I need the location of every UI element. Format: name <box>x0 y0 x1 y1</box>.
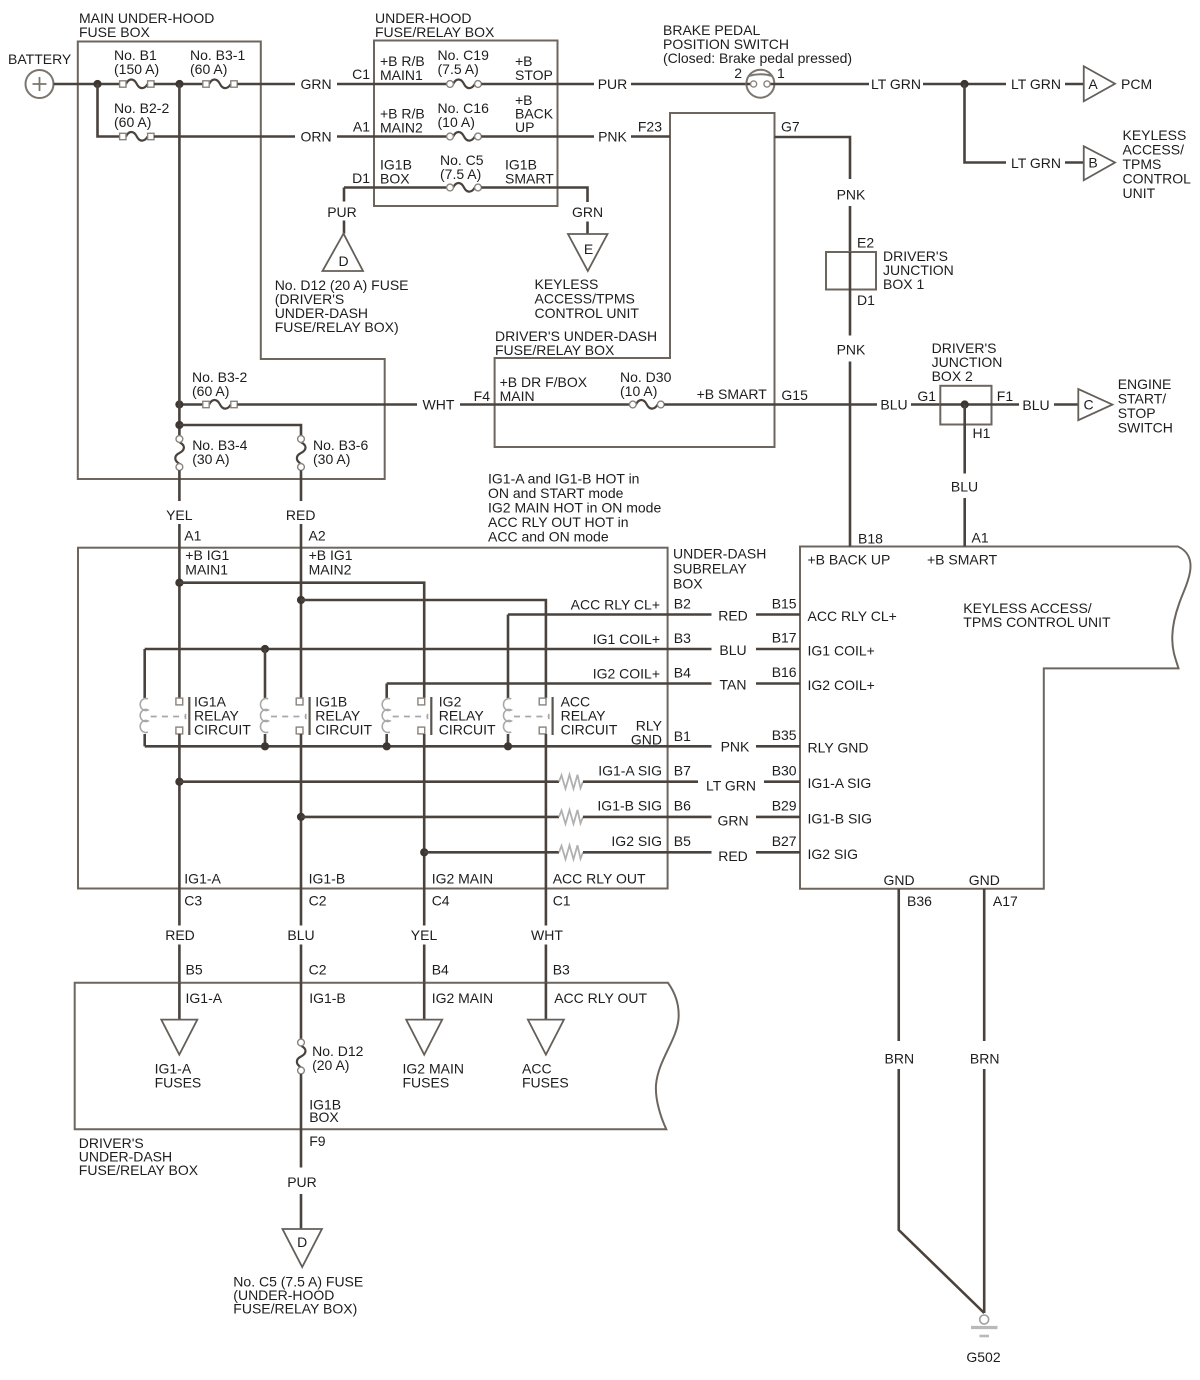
svg-text:RED: RED <box>286 507 316 523</box>
wire BLU to junction box 2 <box>775 388 941 413</box>
svg-text:CIRCUIT: CIRCUIT <box>561 722 618 738</box>
fuse No. B3-2 (60 A) <box>192 369 247 409</box>
svg-text:(60 A): (60 A) <box>190 61 227 77</box>
svg-text:MAIN1: MAIN1 <box>185 562 228 578</box>
wire battery branch down to B2-2 <box>98 84 120 137</box>
svg-text:F1: F1 <box>997 388 1014 404</box>
relay IG1A circuit <box>140 694 251 738</box>
wire A1 +B IG1 MAIN1 into subrelay <box>175 547 229 698</box>
wire B2 to B15 ACC RLY CL+ <box>668 595 897 624</box>
hot-mode note text <box>488 471 661 545</box>
svg-text:MAIN1: MAIN1 <box>380 67 423 83</box>
svg-text:FUSE/RELAY BOX: FUSE/RELAY BOX <box>79 1162 199 1178</box>
svg-text:(60 A): (60 A) <box>192 383 229 399</box>
svg-text:PUR: PUR <box>598 76 628 92</box>
svg-text:B3: B3 <box>674 630 691 646</box>
svg-text:IG1-B SIG: IG1-B SIG <box>808 811 873 827</box>
wire A1 branch to IG2 relay contact <box>179 583 424 698</box>
svg-text:A1: A1 <box>353 119 370 135</box>
connector D triangle (fuse D12) <box>275 234 409 335</box>
wire LT GRN switch to junction <box>774 76 1083 92</box>
svg-text:B2: B2 <box>674 596 691 612</box>
wire IG1-A SIG row B7 with resistor <box>179 762 691 788</box>
wire +B R/B MAIN2 row inside under-hood box <box>374 106 447 137</box>
svg-text:C: C <box>1083 397 1093 413</box>
svg-text:B4: B4 <box>432 962 449 978</box>
wire +B STOP out to brake switch <box>481 53 746 92</box>
svg-text:1: 1 <box>777 65 785 81</box>
svg-text:UNDER-DASH: UNDER-DASH <box>673 546 766 562</box>
wire RED label segment <box>286 470 326 547</box>
svg-text:+B BACK UP: +B BACK UP <box>808 552 891 568</box>
svg-text:(7.5 A): (7.5 A) <box>438 61 479 77</box>
wire +B R/B MAIN1 row inside under-hood box <box>374 53 447 84</box>
svg-text:PUR: PUR <box>287 1174 317 1190</box>
svg-text:+B SMART: +B SMART <box>697 386 768 402</box>
fuse No. B3-1 (60 A) <box>190 47 245 88</box>
svg-text:GND: GND <box>969 872 1000 888</box>
wire +B SMART to G15 <box>664 386 808 405</box>
wire YEL main box to subrelay A1 <box>175 84 183 436</box>
svg-text:IG2 SIG: IG2 SIG <box>808 846 859 862</box>
svg-text:F23: F23 <box>638 119 662 135</box>
svg-text:ACC RLY OUT: ACC RLY OUT <box>554 990 647 1006</box>
connector B triangle to keyless unit <box>1084 127 1191 201</box>
svg-text:B7: B7 <box>674 762 691 778</box>
relay ACC circuit <box>504 694 618 738</box>
wire IG1B BOX down to F9 <box>287 1074 341 1229</box>
svg-text:UP: UP <box>515 119 534 135</box>
wire ORN to under-hood box <box>154 119 374 145</box>
fuse No. D12 (20 A) <box>297 1039 364 1074</box>
svg-text:YEL: YEL <box>411 927 438 943</box>
svg-text:RED: RED <box>718 848 748 864</box>
wire B7 to B30 IG1-A SIG <box>668 762 872 793</box>
svg-text:D: D <box>338 253 348 269</box>
svg-text:BOX: BOX <box>673 576 703 592</box>
svg-text:MAIN2: MAIN2 <box>380 120 423 136</box>
wire +B BACK UP / PNK to F23 <box>481 92 670 145</box>
under-hood fuse/relay box <box>374 10 558 206</box>
svg-text:IG1 COIL+: IG1 COIL+ <box>808 643 875 659</box>
wire RLY GND row B1 <box>145 718 691 751</box>
svg-text:IG2 COIL+: IG2 COIL+ <box>808 677 875 693</box>
svg-text:G7: G7 <box>781 119 800 135</box>
svg-text:YEL: YEL <box>166 507 193 523</box>
svg-text:B29: B29 <box>772 798 797 814</box>
node LT GRN junction <box>960 80 968 88</box>
wire IG1-B contact down <box>300 734 303 889</box>
svg-text:SMART: SMART <box>505 171 554 187</box>
connector A triangle to PCM <box>1084 66 1152 101</box>
node IG2 sig junction <box>420 848 428 856</box>
svg-text:C3: C3 <box>184 893 202 909</box>
driver's junction box 1 (E2/D1) <box>826 235 954 309</box>
svg-text:BOX 2: BOX 2 <box>932 368 973 384</box>
svg-text:FUSE/RELAY BOX: FUSE/RELAY BOX <box>375 24 495 40</box>
svg-text:BLU: BLU <box>1022 397 1049 413</box>
svg-text:LT GRN: LT GRN <box>1011 76 1061 92</box>
fuse No. B3-6 (30 A) <box>297 436 369 471</box>
wire BRN from B36 <box>885 889 985 1313</box>
svg-text:B36: B36 <box>907 893 932 909</box>
main under-hood fuse box <box>78 10 385 479</box>
svg-text:2: 2 <box>734 65 742 81</box>
svg-text:(10 A): (10 A) <box>620 383 657 399</box>
wire YEL C4 to lower box <box>411 889 449 983</box>
svg-text:B: B <box>1088 155 1097 171</box>
svg-text:CIRCUIT: CIRCUIT <box>194 722 251 738</box>
svg-text:D1: D1 <box>352 170 370 186</box>
svg-text:(Closed: Brake pedal pressed): (Closed: Brake pedal pressed) <box>663 50 852 66</box>
wire B3-2 row (WHT) <box>175 400 202 408</box>
svg-text:BATTERY: BATTERY <box>8 51 72 67</box>
svg-text:MAIN2: MAIN2 <box>309 562 352 578</box>
svg-text:B4: B4 <box>674 665 691 681</box>
svg-text:PNK: PNK <box>837 342 866 358</box>
svg-text:B5: B5 <box>674 833 691 849</box>
svg-text:RED: RED <box>718 608 748 624</box>
keyless box GND pins <box>883 872 1018 909</box>
svg-text:ACC RLY OUT: ACC RLY OUT <box>553 870 646 886</box>
svg-text:PUR: PUR <box>327 204 357 220</box>
svg-text:SUBRELAY: SUBRELAY <box>673 561 747 577</box>
fuse No. B2-2 (60 A) <box>114 100 169 141</box>
svg-text:IG1 COIL+: IG1 COIL+ <box>593 631 660 647</box>
wire H1 BLU down to keyless A1 <box>951 405 991 547</box>
svg-text:B1: B1 <box>674 728 691 744</box>
wire to IG2 MAIN fuses triangle <box>423 983 426 1020</box>
svg-text:ACC and ON mode: ACC and ON mode <box>488 529 609 545</box>
svg-text:E2: E2 <box>857 235 874 251</box>
wire BLU to connector C <box>992 397 1079 413</box>
svg-text:RED: RED <box>165 927 195 943</box>
wire battery to fuse B1 <box>54 83 120 86</box>
svg-text:BOX: BOX <box>309 1109 339 1125</box>
brake pedal position switch <box>663 22 852 98</box>
svg-text:(20 A): (20 A) <box>312 1057 349 1073</box>
svg-text:C2: C2 <box>309 962 327 978</box>
svg-text:MAIN: MAIN <box>500 388 535 404</box>
wire PUR down to connector D <box>327 188 357 234</box>
connector E triangle <box>535 234 640 321</box>
svg-text:IG1-B: IG1-B <box>309 870 346 886</box>
wire B1 to B35 RLY GND <box>668 727 869 756</box>
svg-text:F4: F4 <box>474 388 491 404</box>
driver's junction box 2 (G1/F1/H1) <box>932 340 1014 425</box>
svg-text:BRN: BRN <box>970 1051 1000 1067</box>
fuse No. C16 (10 A) <box>438 100 490 141</box>
wire to ACC fuses triangle <box>545 983 548 1020</box>
svg-text:(10 A): (10 A) <box>438 114 475 130</box>
svg-text:A2: A2 <box>309 528 326 544</box>
wire WHT C1 to lower box <box>531 889 570 983</box>
wire A2 branch to ACC relay contact <box>301 600 546 698</box>
svg-text:IG1-B SIG: IG1-B SIG <box>597 798 662 814</box>
wire ACC contact down <box>545 734 548 889</box>
under-dash subrelay box <box>78 546 766 889</box>
svg-text:BOX: BOX <box>380 171 410 187</box>
wire IG1 COIL+ row B3 <box>145 630 691 698</box>
wire branch to B3-6 <box>179 425 301 436</box>
node B1/B3-1 junction <box>175 80 183 88</box>
wire IG1B BOX row inside under-hood box <box>344 157 447 188</box>
svg-text:C4: C4 <box>432 893 450 909</box>
wire IG1B SMART out of box <box>481 157 587 203</box>
node IG1-A sig junction <box>175 778 183 786</box>
svg-text:FUSE/RELAY BOX): FUSE/RELAY BOX) <box>233 1301 357 1317</box>
svg-text:B5: B5 <box>186 962 203 978</box>
svg-text:(30 A): (30 A) <box>313 451 350 467</box>
svg-text:BRN: BRN <box>885 1051 915 1067</box>
subrelay bottom pin labels <box>184 870 646 908</box>
wire BRN from A17 <box>970 889 1000 1313</box>
wire to fuse D12 <box>300 982 303 1039</box>
svg-text:D1: D1 <box>857 292 875 308</box>
svg-text:A1: A1 <box>184 528 201 544</box>
fuse No. D30 (10 A) <box>620 369 672 409</box>
connector triangle IG1-A FUSES <box>155 1020 202 1091</box>
wire IG1-A contact down through rows <box>178 734 181 889</box>
wire GRN down to connector E <box>572 204 603 234</box>
svg-text:B18: B18 <box>858 531 883 547</box>
wire to IG1-A fuses triangle <box>178 983 181 1020</box>
svg-text:BOX 1: BOX 1 <box>883 276 924 292</box>
svg-text:RLY GND: RLY GND <box>808 740 869 756</box>
svg-text:FUSES: FUSES <box>522 1075 569 1091</box>
svg-text:PCM: PCM <box>1121 76 1152 92</box>
wire PNK junction box 1 to keyless B18 <box>837 290 866 547</box>
connector C triangle engine start/stop <box>1078 376 1173 436</box>
svg-text:E: E <box>584 241 593 257</box>
svg-text:ACC RLY CL+: ACC RLY CL+ <box>571 597 660 613</box>
svg-text:IG2 MAIN: IG2 MAIN <box>432 990 493 1006</box>
wire LT GRN down to connector B <box>965 84 1084 171</box>
svg-text:WHT: WHT <box>423 397 455 413</box>
wire B5 to B27 IG2 SIG <box>668 833 858 864</box>
svg-text:B35: B35 <box>772 727 797 743</box>
driver's under-dash fuse/relay box (lower) <box>75 983 679 1178</box>
svg-text:IG1-B: IG1-B <box>309 990 346 1006</box>
svg-text:B17: B17 <box>772 630 797 646</box>
svg-text:BLU: BLU <box>880 397 907 413</box>
svg-text:+B SMART: +B SMART <box>927 552 998 568</box>
svg-text:G502: G502 <box>966 1349 1000 1365</box>
svg-text:GRN: GRN <box>717 813 748 829</box>
fuse No. B1 (150 A) <box>114 47 159 88</box>
svg-text:CIRCUIT: CIRCUIT <box>439 722 496 738</box>
node IG1-B sig junction <box>297 813 305 821</box>
wire YEL label segment <box>166 470 202 547</box>
svg-text:GND: GND <box>883 872 914 888</box>
svg-text:TAN: TAN <box>720 677 747 693</box>
svg-text:FUSE/RELAY BOX: FUSE/RELAY BOX <box>495 342 615 358</box>
wire +B DR F/BOX MAIN row <box>495 374 630 405</box>
svg-text:FUSES: FUSES <box>155 1075 202 1091</box>
svg-text:WHT: WHT <box>531 927 563 943</box>
driver's under-dash fuse/relay box (upper, with D30) <box>495 113 775 447</box>
node battery junction <box>93 80 101 88</box>
wire IG2 contact down <box>423 734 426 889</box>
svg-text:ACC RLY CL+: ACC RLY CL+ <box>808 608 897 624</box>
svg-text:A: A <box>1088 76 1098 92</box>
svg-text:A1: A1 <box>972 530 989 546</box>
svg-text:BLU: BLU <box>287 927 314 943</box>
wire B4 to B16 IG2 COIL+ <box>668 664 875 693</box>
fuse No. C19 (7.5 A) <box>438 47 490 88</box>
svg-text:A17: A17 <box>993 893 1018 909</box>
relay IG2 circuit <box>382 694 496 738</box>
keyless access/TPMS control unit box <box>800 547 1190 889</box>
svg-text:STOP: STOP <box>515 67 553 83</box>
svg-text:B6: B6 <box>674 798 691 814</box>
connector triangle ACC FUSES <box>522 1020 569 1091</box>
svg-text:IG1-A SIG: IG1-A SIG <box>808 775 872 791</box>
svg-text:(150 A): (150 A) <box>114 61 159 77</box>
svg-text:C1: C1 <box>352 66 370 82</box>
svg-text:SWITCH: SWITCH <box>1118 420 1173 436</box>
fuse No. C5 (7.5 A) <box>440 152 484 192</box>
svg-text:(60 A): (60 A) <box>114 114 151 130</box>
wire IG2 SIG row B5 with resistor <box>424 833 691 859</box>
svg-text:B30: B30 <box>772 762 797 778</box>
svg-text:H1: H1 <box>973 425 991 441</box>
connector triangle IG2 MAIN FUSES <box>403 1020 464 1091</box>
svg-text:(7.5 A): (7.5 A) <box>440 166 481 182</box>
svg-text:G15: G15 <box>781 387 808 403</box>
fuse No. B3-4 (30 A) <box>175 436 247 471</box>
svg-text:B16: B16 <box>772 664 797 680</box>
wire IG1-B SIG row B6 with resistor <box>301 798 691 824</box>
svg-text:LT GRN: LT GRN <box>1011 155 1061 171</box>
svg-text:G1: G1 <box>917 388 936 404</box>
svg-text:GRN: GRN <box>300 76 331 92</box>
svg-text:PNK: PNK <box>837 187 866 203</box>
wire WHT to F4 <box>237 388 494 413</box>
svg-text:GRN: GRN <box>572 204 603 220</box>
connector D triangle (No. C5 fuse) <box>233 1229 363 1317</box>
svg-text:UNIT: UNIT <box>1123 185 1156 201</box>
wire PNK from G7 down to junction box 1 <box>775 119 867 253</box>
svg-text:C2: C2 <box>309 893 327 909</box>
svg-text:IG1-A: IG1-A <box>184 870 221 886</box>
ground G502 <box>966 1315 1000 1365</box>
svg-text:IG2 SIG: IG2 SIG <box>611 833 662 849</box>
wire IG2 COIL+ row B4 <box>387 665 691 699</box>
svg-text:PNK: PNK <box>721 739 750 755</box>
relay IG1B circuit <box>261 694 373 738</box>
svg-text:IG2 MAIN: IG2 MAIN <box>432 870 493 886</box>
keyless box top pins B18 A1 <box>808 530 998 568</box>
svg-text:BLU: BLU <box>951 479 978 495</box>
wire B3 to B17 IG1 COIL+ <box>668 630 875 659</box>
svg-text:PNK: PNK <box>598 129 627 145</box>
svg-text:FUSES: FUSES <box>403 1075 450 1091</box>
svg-text:FUSE/RELAY BOX): FUSE/RELAY BOX) <box>275 319 399 335</box>
wire B6 to B29 IG1-B SIG <box>668 798 872 829</box>
wire A2 +B IG1 MAIN2 into subrelay <box>297 547 353 698</box>
svg-text:IG1-A: IG1-A <box>186 990 223 1006</box>
svg-text:D: D <box>297 1234 307 1250</box>
svg-text:GND: GND <box>631 732 662 748</box>
svg-text:(30 A): (30 A) <box>192 451 229 467</box>
wire B1 to B3-1 <box>154 83 203 86</box>
wire GRN to under-hood box <box>237 66 374 92</box>
svg-text:CIRCUIT: CIRCUIT <box>315 722 372 738</box>
svg-text:C1: C1 <box>553 893 571 909</box>
svg-text:B3: B3 <box>553 962 570 978</box>
wire RED C3 to lower box <box>165 889 203 983</box>
svg-text:FUSE BOX: FUSE BOX <box>79 24 150 40</box>
wire ACC RLY CL+ row B2 <box>508 596 691 698</box>
svg-text:LT GRN: LT GRN <box>706 778 756 794</box>
svg-text:LT GRN: LT GRN <box>871 76 921 92</box>
svg-text:CONTROL UNIT: CONTROL UNIT <box>535 305 640 321</box>
battery <box>8 51 72 98</box>
svg-text:BLU: BLU <box>719 642 746 658</box>
svg-text:IG1-A SIG: IG1-A SIG <box>598 762 662 778</box>
svg-text:B27: B27 <box>772 833 797 849</box>
wire BLU C2 to lower box <box>287 889 326 983</box>
svg-text:TPMS CONTROL UNIT: TPMS CONTROL UNIT <box>963 614 1111 630</box>
lower box pin name labels <box>186 990 648 1006</box>
svg-text:B15: B15 <box>772 595 797 611</box>
svg-text:ORN: ORN <box>300 129 331 145</box>
svg-text:IG2 COIL+: IG2 COIL+ <box>593 666 660 682</box>
svg-text:F9: F9 <box>309 1133 326 1149</box>
